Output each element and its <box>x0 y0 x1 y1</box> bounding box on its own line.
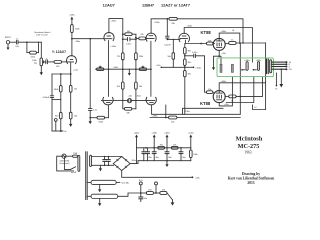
wire AC bottom with switch S1 <box>64 158 76 174</box>
wire +440 stem to bridge wire <box>136 148 138 164</box>
svg-text:0,5V or 2,5V: 0,5V or 2,5V <box>36 34 48 37</box>
wire V3 grid from left <box>102 99 105 101</box>
capacitor C3 680p <box>43 96 54 99</box>
svg-text:6,3v 4A: 6,3v 4A <box>122 182 130 185</box>
op V1 tube half 12AX7 <box>67 56 77 64</box>
svg-text:INPUT: INPUT <box>5 37 12 39</box>
wire input to C1 <box>10 41 17 43</box>
svg-text:0,47u: 0,47u <box>126 44 132 46</box>
wire C3 down to FB node <box>51 97 53 131</box>
svg-text:+10v: +10v <box>128 96 134 98</box>
svg-text:T2A: T2A <box>73 152 77 155</box>
wire V7 cathode down <box>219 50 221 64</box>
capacitor C9 electrolytic <box>152 148 159 161</box>
svg-text:on/off: on/off <box>71 172 77 174</box>
svg-text:L2: L2 <box>254 107 257 109</box>
wire fuse to transformer primary <box>76 155 79 157</box>
wire screen link vertical <box>239 43 241 96</box>
svg-text:220k: 220k <box>30 57 35 59</box>
svg-text:+180v: +180v <box>154 22 161 24</box>
svg-text:McIntosh: McIntosh <box>236 135 263 142</box>
op V6 tube 12AZ7 <box>179 33 190 41</box>
ground below R5 <box>69 119 72 127</box>
B+ terminal arrow +430v <box>69 15 76 20</box>
resistor R29 bias <box>156 190 167 195</box>
wire below box <box>226 77 254 103</box>
secondary tap 16 ohm <box>272 61 292 64</box>
svg-text:+430v: +430v <box>256 60 263 62</box>
svg-text:+430v: +430v <box>244 60 251 62</box>
svg-text:12BH7: 12BH7 <box>142 2 154 7</box>
svg-text:2013: 2013 <box>247 181 254 185</box>
resistor R13 33k <box>123 107 136 114</box>
resistor R25 750 <box>158 145 165 150</box>
secondary tap 4 ohm <box>272 66 291 69</box>
svg-text:1u: 1u <box>16 39 19 41</box>
svg-text:KT88: KT88 <box>201 30 212 35</box>
svg-text:3k3: 3k3 <box>55 116 59 118</box>
svg-text:1k2: 1k2 <box>74 88 78 90</box>
wire L2 lower stub <box>253 105 266 110</box>
svg-text:10k: 10k <box>139 86 143 88</box>
svg-text:+430v: +430v <box>221 31 228 33</box>
down arrow connector <box>128 69 131 76</box>
secondary tap common <box>272 68 293 71</box>
svg-text:100k: 100k <box>75 29 80 31</box>
svg-text:fb: fb <box>276 89 279 91</box>
ground below node C <box>89 121 92 124</box>
wire HV sec bottom to bridge <box>92 164 114 166</box>
primary winding a <box>241 60 251 71</box>
capacitor C13 doubler <box>107 156 111 166</box>
svg-text:Drawing by: Drawing by <box>242 172 260 176</box>
wire cathode bias to ground <box>214 56 220 67</box>
AC source G1 <box>60 154 70 165</box>
svg-text:40u: 40u <box>182 157 186 159</box>
wire FB node <box>52 119 67 134</box>
wire node A to pot <box>40 42 42 58</box>
svg-text:100k: 100k <box>193 154 198 156</box>
wire V4 cathode down <box>150 41 152 96</box>
capacitor C1 1u <box>15 39 20 48</box>
svg-text:47k: 47k <box>140 34 144 36</box>
svg-text:+430v: +430v <box>69 15 76 17</box>
terminal +440v <box>134 133 141 148</box>
wire C2 to R2 <box>47 61 54 63</box>
svg-text:560k: 560k <box>99 122 104 124</box>
ground below input jack <box>7 44 10 50</box>
capacitor C5 0.47u <box>122 34 137 45</box>
wire V6 plate up L2 <box>184 28 252 62</box>
bias terminal B1 <box>139 180 144 193</box>
svg-text:33k: 33k <box>126 113 130 115</box>
wire V8 plate up <box>219 83 265 93</box>
resistor R22 grid KT88b <box>207 89 214 94</box>
heater winding W2 <box>87 194 118 198</box>
resistor R11 10k <box>117 82 125 109</box>
node E <box>166 18 168 20</box>
resistor R16 56k <box>167 39 174 67</box>
transformer core <box>266 59 268 73</box>
svg-text:+430v: +430v <box>151 133 158 135</box>
svg-text:56k: 56k <box>167 56 171 58</box>
resistor R23 1k screen <box>229 95 236 102</box>
terminal +400v <box>164 133 171 148</box>
svg-text:0,68uF: 0,68uF <box>43 97 50 99</box>
svg-text:+140v: +140v <box>110 46 117 48</box>
wire AC top to fuse <box>66 155 73 157</box>
resistor stack R18 39k <box>184 44 192 54</box>
capacitor C8b electrolytic <box>146 148 153 161</box>
trimpot P3 <box>139 66 146 71</box>
wire C6 to V6 grid <box>167 38 180 40</box>
ground stub HV <box>99 165 102 171</box>
svg-text:+33v: +33v <box>156 65 162 67</box>
svg-text:4: 4 <box>289 66 291 68</box>
svg-text:MC-275: MC-275 <box>238 143 260 150</box>
winding cathode b <box>231 64 233 72</box>
svg-text:C/0: C/0 <box>289 69 293 71</box>
wire R2 to V1 grid <box>62 61 68 63</box>
pentode V8 KT88b <box>213 91 225 103</box>
output transformer T2 green enclosure <box>217 58 274 77</box>
op V4 tube half 12BH7a <box>146 33 156 41</box>
svg-text:Kurt van Lilienthal Steffensen: Kurt van Lilienthal Steffensen <box>228 177 275 181</box>
svg-text:+440v: +440v <box>134 133 141 135</box>
svg-text:1k: 1k <box>231 100 234 102</box>
power transformer HV secondary <box>90 155 92 166</box>
resistor R10 220k <box>135 34 145 60</box>
primary winding b <box>253 60 263 71</box>
wire +380v feed <box>150 105 167 118</box>
wire x135 lower <box>135 59 137 82</box>
terminal +130v <box>188 133 195 148</box>
wire grid bus to V5 <box>113 99 128 101</box>
wiper wire to C2 <box>44 61 47 63</box>
capacitor C8 electrolytic <box>142 148 146 161</box>
resistor R24 15k <box>166 116 177 123</box>
neon bulb NE <box>127 99 131 103</box>
svg-text:+410v: +410v <box>187 25 194 27</box>
wire L1 to right <box>177 19 243 43</box>
wire node G stub <box>156 65 185 68</box>
wire loop left <box>57 156 74 171</box>
svg-text:40u: 40u <box>168 157 172 159</box>
ground center tap W1 <box>98 185 101 193</box>
resistor R21 1k screen <box>229 40 236 45</box>
wire V3 cathode down <box>107 105 109 118</box>
resistor R5 220 <box>69 112 78 119</box>
node B <box>89 38 91 40</box>
B+ filter bottom rail <box>138 160 191 162</box>
trimpot P2 <box>97 66 104 71</box>
svg-text:40u: 40u <box>155 157 159 159</box>
wire B down x90 <box>89 39 91 109</box>
svg-text:40u: 40u <box>148 157 152 159</box>
svg-text:8,2v: 8,2v <box>139 180 144 182</box>
wire C7 to lower grid <box>196 56 207 92</box>
potentiometer VR1 100k log <box>32 58 45 66</box>
power transformer T1 core <box>86 152 88 200</box>
svg-text:12AU7: 12AU7 <box>103 2 115 7</box>
wire V4 plate up and right <box>151 19 167 34</box>
wire FB tap <box>276 73 279 91</box>
resistor R9 27k <box>117 39 124 60</box>
svg-text:log: log <box>34 62 38 64</box>
ground center tap W2 <box>98 199 101 207</box>
wire V7 screen to R21 <box>225 43 229 45</box>
op V5 tube half 12BH7b <box>146 97 156 105</box>
bias terminal B2 <box>155 182 158 193</box>
feedback bus wire <box>52 73 71 75</box>
secondary tap 8 ohm <box>272 63 291 66</box>
svg-text:+185v: +185v <box>111 21 118 23</box>
svg-text:+100v: +100v <box>195 67 202 69</box>
capacitor C14 bias <box>139 193 148 202</box>
rail junction dots <box>145 147 147 149</box>
wire R24 right <box>177 117 240 119</box>
power transformer T1 primary <box>78 155 80 171</box>
svg-text:1u: 1u <box>45 58 48 60</box>
svg-text:½ 12AX7: ½ 12AX7 <box>52 50 66 54</box>
ground below pot <box>40 66 43 76</box>
node C <box>89 117 91 119</box>
svg-text:39k: 39k <box>188 74 192 76</box>
wire coupling V1 plate to V2 grid <box>72 38 104 40</box>
resistor R1 220k shunt loop <box>27 42 39 58</box>
node F <box>184 55 186 57</box>
svg-text:+150v: +150v <box>113 67 120 69</box>
node bus junctions <box>108 68 110 70</box>
svg-text:0,22u: 0,22u <box>192 52 198 54</box>
wire V1 plate up <box>71 39 73 56</box>
svg-text:+2,5v: +2,5v <box>73 70 79 72</box>
wire fb vertical <box>51 74 53 96</box>
svg-text:+140v: +140v <box>75 41 82 43</box>
resistor R6 3k3 fb <box>54 74 62 131</box>
input jack J1 <box>5 37 12 44</box>
wire screen to x262 <box>236 77 262 96</box>
resistor R26 10k <box>171 145 178 150</box>
node D plate V2 <box>122 33 124 35</box>
svg-text:+380v: +380v <box>152 115 159 117</box>
fuse F1 <box>73 152 78 157</box>
wire V2 cathode down <box>108 41 110 97</box>
wire W2 to bias row <box>118 193 141 196</box>
capacitor C11 electrolytic <box>179 148 186 161</box>
node G <box>184 66 186 68</box>
node A junction <box>26 41 28 43</box>
secondary winding <box>270 60 272 73</box>
svg-text:+130v: +130v <box>188 133 195 135</box>
node bias b <box>155 192 157 194</box>
wire HV sec top to bridge <box>92 156 122 158</box>
wire +43v line <box>122 171 201 180</box>
svg-text:fb: fb <box>65 131 68 133</box>
svg-text:22k: 22k <box>56 66 60 68</box>
svg-text:0,1u: 0,1u <box>93 110 98 112</box>
resistor R7 560k <box>90 116 108 123</box>
op V2 tube half 12AU7a <box>104 32 114 40</box>
svg-text:220k: 220k <box>139 56 144 58</box>
capacitor C10 electrolytic <box>165 148 172 161</box>
resistor R4 1k cathode <box>69 85 77 92</box>
wire screen line to transformer <box>236 42 266 44</box>
ground bias <box>171 200 175 206</box>
svg-text:15k: 15k <box>171 121 175 123</box>
wire V7 plate up right <box>219 33 240 43</box>
wire C1 to node A <box>18 41 41 43</box>
node bias a <box>140 192 142 194</box>
svg-text:+43v: +43v <box>221 53 227 55</box>
resistor R19 39k <box>184 54 192 66</box>
bus wire y69 <box>96 68 151 70</box>
node plate V1 <box>71 38 73 40</box>
resistor R27 100k bleeder <box>190 148 199 161</box>
heater winding W1 <box>87 180 129 184</box>
wire V8 cathode <box>219 77 232 106</box>
resistor R3 100k plate load <box>71 19 81 38</box>
svg-text:+430v: +430v <box>221 81 228 83</box>
wire bridge plus to filter <box>130 161 138 164</box>
wire V8 screen <box>225 95 229 97</box>
ground KT88a bias <box>212 67 215 70</box>
svg-text:+43v: +43v <box>195 177 201 179</box>
svg-text:1963: 1963 <box>244 151 251 155</box>
resistor R14 47k grid V4 <box>136 34 147 40</box>
resistor R12 10k <box>135 82 143 109</box>
terminal +430v <box>151 133 158 148</box>
svg-text:27k: 27k <box>117 56 121 58</box>
svg-text:+105v: +105v <box>135 96 142 98</box>
svg-text:+400v: +400v <box>164 133 171 135</box>
capacitor C4 0.1u <box>89 109 98 112</box>
svg-text:560k: 560k <box>54 89 59 91</box>
wire +130v corner <box>183 108 224 114</box>
node L1 end <box>242 42 244 44</box>
svg-text:KT88: KT88 <box>200 101 211 106</box>
svg-text:220: 220 <box>74 116 78 118</box>
wire cathode V1 down <box>70 63 72 86</box>
ground stub filter <box>165 160 168 167</box>
capacitor C7 0.22u <box>192 52 198 57</box>
node common junction <box>281 68 283 70</box>
svg-text:50u: 50u <box>144 198 148 200</box>
resistor R2 22k grid <box>54 61 62 69</box>
svg-text:0,5v: 0,5v <box>15 46 20 48</box>
resistor R28 bias <box>141 190 156 195</box>
resistor R20 39k <box>184 65 192 114</box>
svg-text:Sensitivity Switch: Sensitivity Switch <box>34 31 51 34</box>
wire common to ground <box>279 69 283 87</box>
wire node F to C7 <box>185 55 194 57</box>
svg-text:UL: UL <box>232 30 236 32</box>
capacitor C12 doubler <box>103 156 107 166</box>
svg-text:39k: 39k <box>188 62 192 64</box>
capacitor C2 1u <box>45 58 48 63</box>
wire x122 lower <box>122 59 124 82</box>
B+ filter top rail <box>137 147 191 149</box>
wire diagonal to ground <box>167 193 173 200</box>
winding cathode a <box>220 64 222 72</box>
wire R4 to R5 <box>70 92 72 112</box>
op V3 tube half 12AU7b <box>103 97 113 105</box>
wire x265 vertical <box>265 43 267 110</box>
wire V2 plate loop up <box>109 19 123 35</box>
svg-text:0,22uF: 0,22uF <box>164 45 171 47</box>
wire cross link <box>52 99 61 101</box>
svg-text:33k: 33k <box>171 23 175 25</box>
wire V6 cathode <box>185 40 206 43</box>
svg-text:10k: 10k <box>117 86 121 88</box>
bridge rectifier D1 <box>113 157 137 171</box>
capacitor C6 0.22uF coupling <box>164 19 171 47</box>
wire V5 cathode down to long bus <box>152 96 241 114</box>
svg-text:+130v: +130v <box>184 111 191 113</box>
svg-text:12AZ7 or 12AT7: 12AZ7 or 12AT7 <box>161 2 190 7</box>
pentode V7 KT88a <box>213 38 225 50</box>
resistor R17 grid KT88a <box>207 40 213 45</box>
resistor R8 39k <box>123 31 136 36</box>
resistor R15 33k <box>167 17 177 25</box>
